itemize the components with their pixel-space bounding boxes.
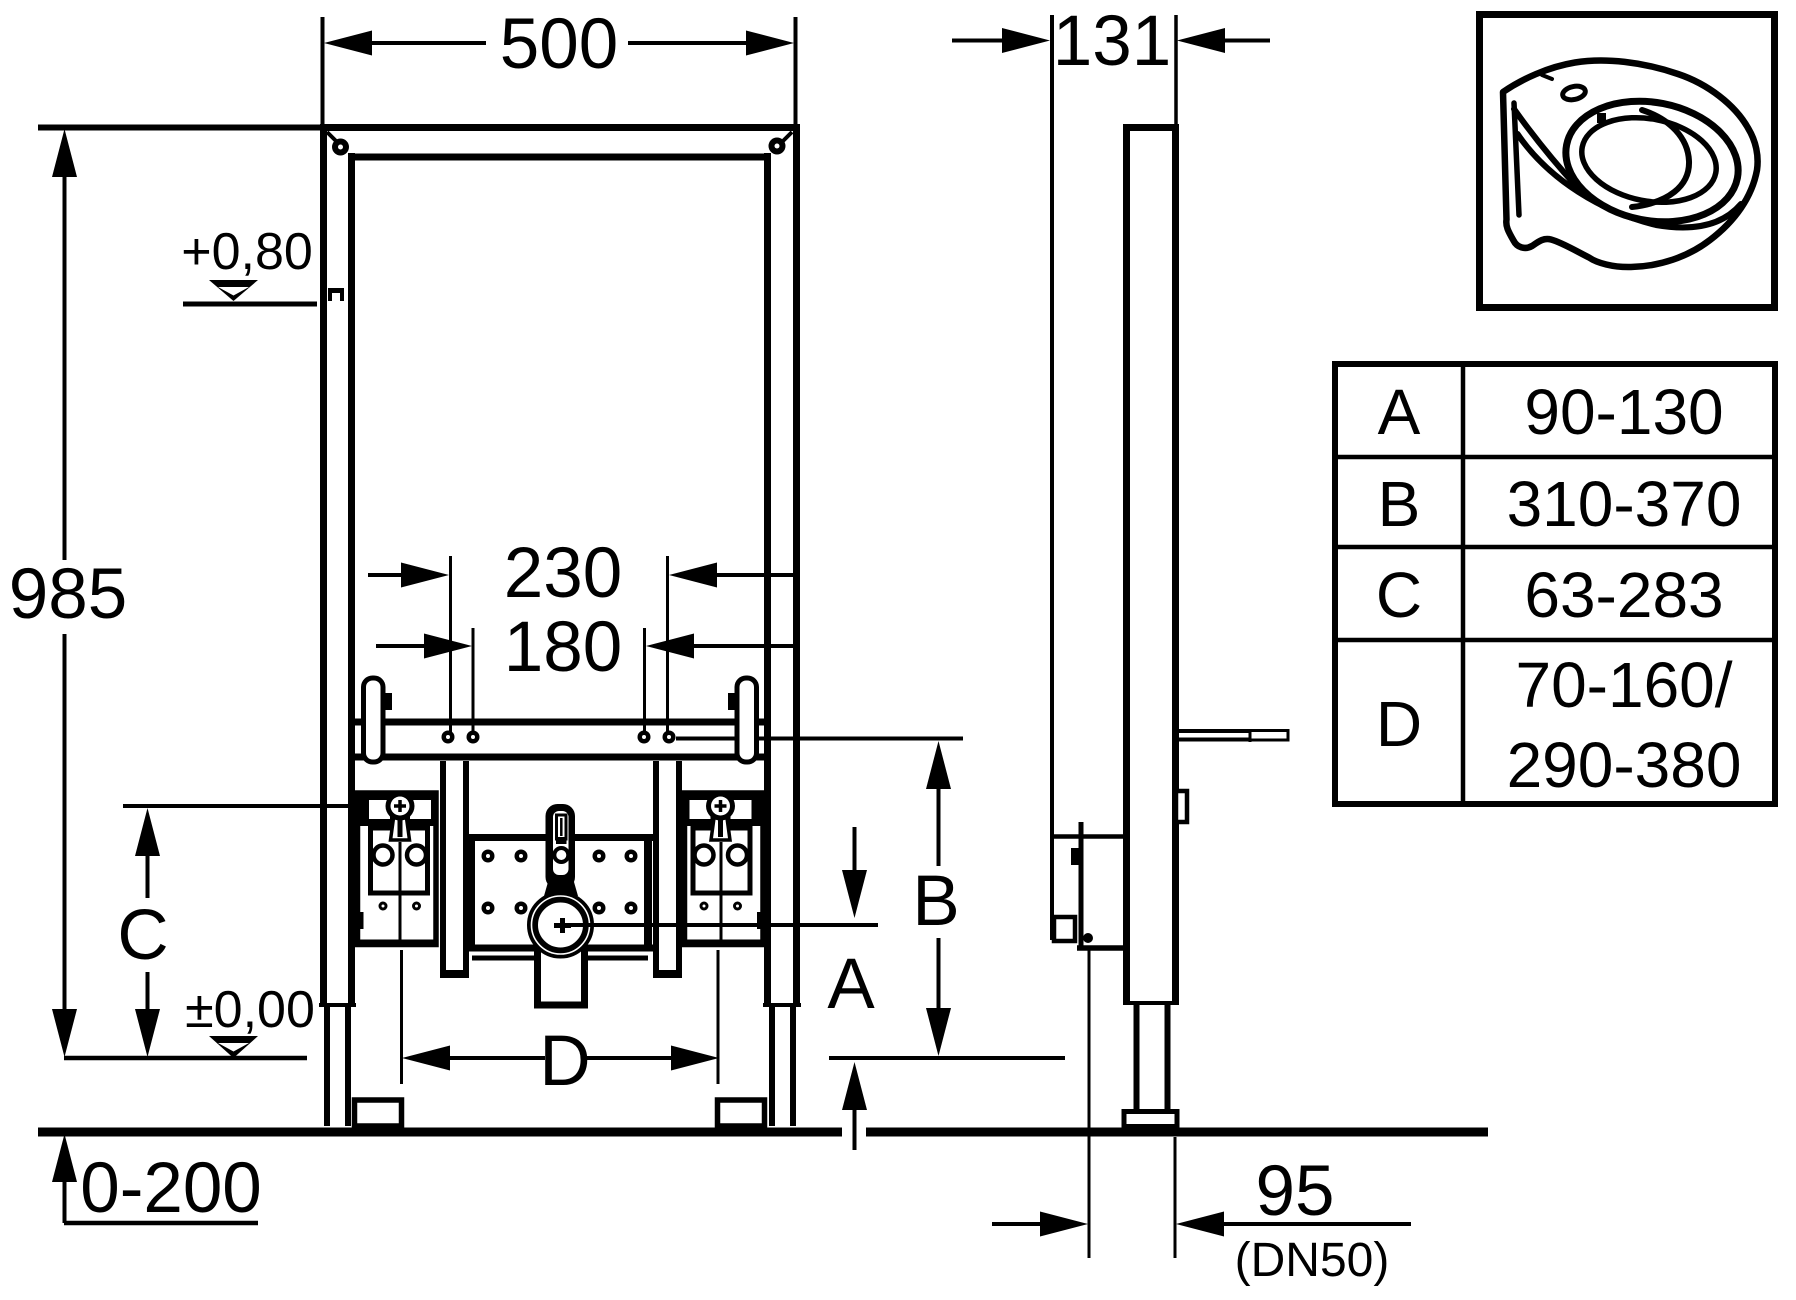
dimension 180	[376, 608, 797, 687]
dimension A	[827, 827, 875, 1150]
dimension 180 extension lines	[473, 628, 645, 732]
dimension 230	[368, 534, 797, 613]
reference line C top	[123, 804, 400, 808]
left bracket	[356, 792, 437, 945]
svg-text:B: B	[912, 862, 959, 941]
svg-text:±0,00: ±0,00	[185, 981, 315, 1039]
svg-text:A: A	[827, 945, 875, 1024]
dimension 0-200	[52, 1134, 262, 1228]
dimension 985 top reference line	[38, 125, 322, 131]
front frame: outer top bar	[322, 124, 797, 131]
side view: leg	[1137, 1003, 1168, 1113]
dimension 985	[9, 129, 127, 1057]
bidet pictogram box	[1480, 15, 1775, 308]
front frame: right leg	[772, 1005, 793, 1126]
dimension 230 extension lines	[451, 556, 668, 732]
svg-text:0-200: 0-200	[80, 1149, 262, 1228]
front frame: inner top bar	[351, 154, 769, 161]
mounting plate	[466, 837, 653, 958]
reference line A top (drain centre line)	[561, 923, 878, 927]
support crossbar	[355, 722, 767, 757]
bidet pictogram	[1503, 60, 1758, 267]
svg-text:B: B	[1378, 468, 1421, 540]
front frame: left foot plate	[355, 1100, 402, 1126]
svg-text:C: C	[1376, 559, 1422, 631]
drain flange	[532, 896, 590, 954]
drain stub	[534, 950, 588, 1008]
front frame: rail bottom caps	[319, 1003, 801, 1007]
svg-text:D: D	[539, 1022, 590, 1101]
svg-text:290-380: 290-380	[1507, 729, 1742, 801]
ground line	[38, 1128, 1488, 1137]
side view: rail	[1123, 124, 1179, 1003]
front frame: corner diagonals	[327, 132, 792, 144]
side view: water pipe	[1179, 729, 1288, 742]
left hanger strap	[364, 678, 393, 762]
dimension 131	[952, 2, 1270, 81]
dimension 95 extension lines	[1089, 950, 1175, 1258]
side view: rail/leg transition	[1123, 1001, 1179, 1005]
svg-text:D: D	[1376, 688, 1422, 760]
front frame: right rail outer line	[793, 124, 800, 1006]
svg-text:C: C	[117, 896, 168, 975]
dimension 95	[992, 1152, 1411, 1287]
dimension D extension lines	[402, 950, 719, 1084]
reference line B top (bolt row)	[676, 737, 963, 741]
front frame: left rail outer line	[320, 124, 327, 1006]
side view: wall line	[1050, 15, 1054, 940]
dimension B	[912, 741, 959, 1056]
table row C	[1376, 559, 1724, 631]
reference line A/B bottom	[829, 1056, 1065, 1060]
right support rod	[653, 761, 682, 975]
front frame: left rail inner line	[348, 153, 355, 1006]
front frame: right foot plate	[718, 1100, 765, 1126]
svg-text:95: 95	[1256, 1152, 1335, 1231]
dimension 131 right extension	[1174, 15, 1178, 124]
table row B	[1378, 468, 1742, 540]
svg-text:500: 500	[500, 5, 618, 84]
mounting plate holes	[482, 850, 638, 915]
dimension D	[402, 1022, 719, 1101]
crossbar bolts	[442, 731, 676, 744]
side view: foot	[1124, 1112, 1177, 1127]
table row D	[1376, 649, 1742, 801]
svg-text:63-283: 63-283	[1524, 559, 1723, 631]
front frame: right rail inner line	[764, 153, 771, 1006]
svg-text:(DN50): (DN50)	[1235, 1234, 1390, 1287]
front frame: left leg	[327, 1005, 348, 1126]
level mark ±0,00	[64, 981, 315, 1058]
rail attachment tab at +0,80 level	[328, 288, 344, 301]
central adjuster	[544, 804, 578, 896]
right bracket	[685, 792, 766, 945]
right hanger strap	[728, 678, 757, 762]
side view: wall bracket	[1052, 822, 1126, 948]
svg-text:70-160/: 70-160/	[1515, 649, 1732, 721]
dimension table	[1335, 364, 1775, 804]
svg-text:+0,80: +0,80	[181, 223, 313, 281]
front frame: corner screw right	[769, 138, 786, 155]
level mark +0,80	[181, 223, 317, 304]
left support rod	[440, 761, 469, 975]
dimension 500	[324, 5, 794, 84]
svg-text:230: 230	[504, 534, 622, 613]
dimension C	[117, 808, 168, 1057]
svg-text:985: 985	[9, 555, 127, 634]
svg-text:131: 131	[1053, 2, 1171, 81]
front frame: corner screw left	[332, 139, 349, 156]
svg-text:90-130: 90-130	[1524, 376, 1723, 448]
svg-text:310-370: 310-370	[1507, 468, 1742, 540]
dimension 500 extension lines	[323, 17, 796, 124]
svg-text:A: A	[1378, 376, 1421, 448]
svg-text:180: 180	[504, 608, 622, 687]
side view: rail tab	[1176, 791, 1187, 822]
table row A	[1378, 376, 1724, 448]
